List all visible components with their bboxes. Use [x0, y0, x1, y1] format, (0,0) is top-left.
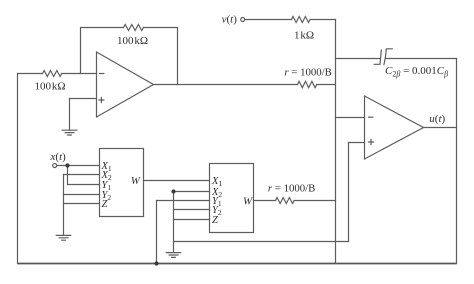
svg-text:Z: Z [102, 199, 108, 210]
svg-text:u(t): u(t) [429, 113, 445, 125]
svg-text:x(t): x(t) [50, 151, 67, 163]
svg-text:1 kΩ: 1 kΩ [294, 29, 314, 41]
svg-text:W: W [131, 175, 141, 187]
svg-text:100 kΩ: 100 kΩ [117, 35, 148, 47]
svg-text:Z: Z [212, 215, 218, 226]
svg-text:v(t): v(t) [222, 14, 238, 26]
svg-text:W: W [243, 195, 253, 207]
svg-text:r = 1000/B: r = 1000/B [268, 182, 316, 194]
svg-text:100 kΩ: 100 kΩ [34, 81, 65, 93]
svg-text:C2β = 0.001Cβ: C2β = 0.001Cβ [385, 65, 448, 79]
svg-text:r = 1000/B: r = 1000/B [284, 67, 332, 79]
